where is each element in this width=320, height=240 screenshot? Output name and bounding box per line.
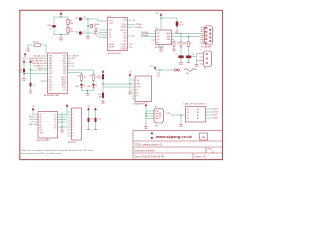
svg-text:TX1RTS: TX1RTS: [120, 47, 126, 49]
svg-text:RST: RST: [41, 81, 44, 83]
wire: [30, 63, 32, 83]
wire: [197, 57, 200, 61]
capacitor C1: [23, 69, 25, 73]
svg-text:COM: COM: [166, 113, 171, 115]
wire: [67, 120, 72, 122]
svg-text:ADC6: ADC6: [62, 76, 66, 79]
wire: [128, 24, 136, 26]
svg-text:CLKOUT: CLKOUT: [120, 30, 126, 32]
wire: [33, 110, 38, 114]
wire: [146, 110, 154, 112]
wire: [27, 45, 29, 49]
wire: [30, 87, 32, 91]
svg-text:Date: 9/1/2010 13:56:34 PM: Date: 9/1/2010 13:56:34 PM: [135, 156, 165, 159]
svg-text:S2: S2: [155, 107, 157, 109]
wire: [58, 121, 68, 123]
svg-text:+5V: +5V: [144, 102, 148, 104]
wire: [159, 45, 163, 48]
wire: [23, 63, 25, 69]
svg-text:IC1: IC1: [156, 28, 159, 30]
svg-text:IC2: IC2: [108, 16, 111, 18]
svg-text:GND: GND: [144, 128, 149, 130]
svg-text:www.skpang.co.uk: www.skpang.co.uk: [155, 134, 193, 139]
wire: [128, 19, 132, 21]
wire: [99, 37, 108, 39]
wire: [188, 58, 190, 62]
wire: [93, 81, 95, 85]
svg-text:Y3: Y3: [54, 120, 56, 122]
wire CANH: [172, 33, 201, 35]
power +5V: [149, 66, 156, 69]
svg-text:R5: R5: [89, 76, 91, 78]
wire: [87, 91, 89, 94]
node junction: [160, 17, 161, 18]
svg-text:+5V: +5V: [132, 20, 136, 22]
wire: [99, 32, 108, 34]
svg-text:C9: C9: [49, 29, 52, 31]
svg-text:TX1: TX1: [129, 47, 132, 49]
svg-text:10uF: 10uF: [47, 25, 52, 27]
capacitor C8 polarized: [186, 55, 192, 58]
wire: [102, 80, 104, 85]
wire: [41, 45, 47, 53]
wire: [188, 37, 190, 42]
resistor R5: [92, 75, 94, 81]
wire: [44, 63, 48, 65]
wire: [128, 35, 132, 37]
svg-text:60: 60: [191, 43, 193, 45]
svg-text:OSC1: OSC1: [109, 21, 113, 23]
svg-text:ATMEGA8-16AU: ATMEGA8-16AU: [44, 94, 60, 97]
svg-text:R7: R7: [177, 43, 179, 45]
svg-text:PB5: PB5: [49, 68, 52, 70]
svg-text:GND: GND: [159, 50, 164, 52]
capacitor C6: [79, 17, 82, 20]
wire: [141, 33, 156, 35]
title block line: [133, 146, 223, 148]
wire: [173, 47, 175, 49]
svg-text:TX: TX: [72, 66, 75, 68]
node junction: [87, 25, 88, 26]
wire: [24, 73, 48, 75]
wire: [58, 119, 68, 121]
svg-text:9: 9: [73, 136, 74, 138]
ground: [59, 37, 62, 39]
resistor R4: [80, 75, 82, 81]
svg-text:SCK: SCK: [72, 58, 76, 60]
wire: [103, 86, 135, 88]
wire: [81, 81, 83, 85]
wire: [53, 29, 55, 35]
wire: [102, 84, 104, 87]
wire: [54, 34, 68, 36]
svg-text:22p: 22p: [75, 32, 78, 34]
svg-text:RST: RST: [123, 38, 126, 40]
svg-text:RXD: RXD: [157, 36, 161, 38]
svg-text:PB2: PB2: [49, 61, 52, 63]
wire: [132, 89, 136, 91]
svg-text:TX0CAN: TX0CAN: [141, 31, 149, 34]
svg-text:XT1: XT1: [63, 87, 66, 89]
svg-text:VCC: VCC: [49, 71, 53, 73]
svg-text:OSC: OSC: [123, 41, 127, 43]
svg-text:SJ1: SJ1: [157, 76, 160, 78]
svg-text:VIN: VIN: [137, 80, 141, 82]
svg-text:+5V: +5V: [24, 57, 28, 59]
wire: [82, 32, 88, 34]
svg-text:R8: R8: [185, 43, 187, 45]
wire: [68, 70, 94, 75]
svg-text:MICROSD: MICROSD: [68, 142, 77, 144]
wire VREF: [172, 40, 175, 42]
connector microSD card detect: [135, 76, 152, 102]
svg-text:SOF: SOF: [123, 33, 126, 35]
wire: [23, 73, 25, 79]
wire: [88, 25, 90, 27]
svg-text:10k: 10k: [70, 31, 73, 33]
svg-text:A2/LT: A2/LT: [214, 114, 218, 117]
svg-text:+5V: +5V: [128, 71, 132, 73]
svg-text:A5: A5: [40, 124, 42, 127]
wire: [191, 54, 199, 57]
connector X2 DB9 body: [205, 26, 213, 46]
svg-text:P3: P3: [137, 96, 139, 98]
svg-text:Y4: Y4: [54, 122, 56, 124]
power +5V: [155, 13, 162, 16]
ground: [60, 129, 63, 131]
wire: [160, 16, 162, 30]
svg-text:GND: GND: [59, 40, 64, 42]
net label stubs into IC1 lower-left: [99, 30, 108, 38]
svg-text:MISO: MISO: [29, 124, 34, 126]
svg-text:3: 3: [73, 118, 74, 120]
svg-text:VCC: VCC: [157, 39, 161, 41]
capacitor C7: [79, 31, 82, 34]
wire: [103, 83, 135, 85]
svg-text:PD4: PD4: [63, 66, 66, 68]
ground: [86, 35, 89, 37]
solder jumper SJ1: [174, 69, 196, 72]
border frame: [20, 10, 223, 159]
wire: [68, 60, 72, 62]
ground: [46, 139, 49, 141]
node junction: [159, 69, 160, 70]
wire: [34, 119, 38, 121]
power +5V: [128, 71, 132, 75]
svg-text:CS: CS: [109, 37, 111, 39]
svg-text:C12: C12: [91, 119, 94, 121]
svg-text:RX0BF: RX0BF: [109, 44, 114, 46]
svg-text:PC5: PC5: [49, 90, 52, 92]
svg-text:Sheet: 1/1: Sheet: 1/1: [195, 156, 207, 159]
wire: [180, 47, 182, 56]
svg-text:GND: GND: [29, 92, 34, 94]
svg-text:GND: GND: [40, 133, 44, 135]
wire: [132, 95, 136, 97]
svg-text:PB4: PB4: [49, 66, 52, 68]
wire common: [170, 115, 186, 124]
node junction: [145, 113, 146, 114]
wire: [141, 36, 156, 38]
svg-text:A2: A2: [40, 116, 42, 119]
wire: [68, 65, 72, 67]
wire: [88, 110, 90, 117]
svg-text:Document Number:: Document Number:: [135, 149, 156, 152]
svg-text:Y2: Y2: [54, 117, 56, 119]
wire TXCAN into 2551: [141, 34, 163, 49]
node junction: [61, 126, 62, 127]
wire: [44, 80, 48, 82]
svg-text:SW: SW: [155, 126, 158, 128]
wire: [44, 65, 48, 67]
svg-text:PD2: PD2: [63, 61, 66, 63]
svg-text:INT: INT: [124, 36, 127, 38]
svg-text:OSC2: OSC2: [109, 23, 113, 25]
node junction: [180, 33, 181, 34]
connector X1 body: [204, 51, 212, 67]
svg-text:PD0: PD0: [63, 56, 66, 58]
svg-text:4: 4: [73, 121, 74, 123]
node junction: [23, 73, 24, 74]
svg-text:A3/RT: A3/RT: [214, 117, 219, 120]
IC1 MCP2551: [156, 30, 172, 45]
node junction: [145, 115, 146, 116]
svg-text:22p: 22p: [75, 18, 78, 20]
wire: [82, 18, 88, 20]
svg-text:Y5: Y5: [54, 125, 56, 127]
wire: [58, 116, 68, 118]
left net-label stubs of IC2: [44, 56, 48, 69]
svg-text:7: 7: [73, 130, 74, 132]
wire: [206, 117, 214, 119]
capacitor C3: [173, 42, 175, 47]
wire: [66, 107, 68, 115]
svg-text:A0/UP: A0/UP: [214, 108, 220, 111]
connector microSD socket: [72, 108, 82, 140]
wire: [132, 98, 136, 100]
IC3 main: [48, 53, 68, 94]
svg-text:RX0CAN: RX0CAN: [141, 34, 149, 37]
svg-text:+5V: +5V: [149, 66, 153, 68]
svg-text:GND: GND: [172, 50, 177, 52]
wire: [160, 47, 162, 49]
power +5V: [31, 106, 35, 110]
wire: [60, 35, 62, 38]
wire: [196, 61, 198, 65]
svg-text:P$1: P$1: [186, 73, 189, 75]
svg-text:GND: GND: [86, 95, 91, 97]
wire: [60, 15, 62, 18]
wire: [68, 73, 82, 75]
wire: [146, 118, 154, 120]
wire: [67, 135, 72, 137]
wire: [34, 121, 38, 123]
wire: [67, 126, 72, 128]
node junction: [60, 16, 61, 17]
wire: [93, 25, 96, 27]
wire: [88, 19, 108, 21]
svg-text:VOUT: VOUT: [137, 87, 141, 89]
wire: [188, 47, 190, 56]
svg-text:MCP2515-I/SO: MCP2515-I/SO: [108, 53, 122, 55]
ground: [175, 30, 178, 32]
wire: [102, 73, 104, 74]
ground: [179, 124, 182, 126]
node junction: [30, 69, 31, 70]
LED2: [92, 84, 97, 87]
ground: [29, 90, 32, 92]
wire: [93, 88, 95, 91]
svg-text:CANL: CANL: [166, 35, 170, 38]
title block divider REV: [205, 147, 207, 153]
node junction: [180, 114, 181, 115]
wire: [67, 111, 72, 113]
wire: [95, 122, 97, 129]
svg-text:R4: R4: [77, 76, 79, 78]
wire: [67, 114, 72, 116]
svg-text:TITLE: canbus_shield-v12: TITLE: canbus_shield-v12: [135, 144, 163, 147]
svg-text:GND: GND: [49, 73, 53, 75]
svg-text:X1: X1: [204, 68, 206, 70]
wire: [82, 90, 94, 92]
power AVCC: [29, 57, 34, 62]
svg-text:221: 221: [84, 77, 87, 79]
svg-text:DM3AT-SF-PEJ: DM3AT-SF-PEJ: [133, 103, 145, 106]
wire: [154, 69, 156, 70]
wire: [34, 116, 38, 118]
wires IC4 -> microSD: [58, 112, 68, 130]
wire: [88, 26, 96, 33]
wire: [54, 16, 68, 18]
wire: [67, 117, 72, 119]
IC2 right-side stubs + labels: [68, 56, 72, 66]
svg-text:PB1: PB1: [49, 58, 52, 60]
svg-text:Y1: Y1: [54, 114, 56, 116]
svg-text:VDD: VDD: [123, 20, 127, 22]
title block line: [133, 140, 223, 142]
wire: [180, 58, 182, 62]
resistor R8 60R: [188, 42, 190, 47]
wire: [102, 98, 104, 101]
svg-text:PC1: PC1: [49, 80, 52, 82]
svg-text:PD7: PD7: [63, 73, 66, 75]
wire: [151, 39, 156, 41]
resistor R6: [176, 21, 179, 26]
wire: [68, 55, 72, 57]
logo CE box: [200, 133, 208, 140]
svg-text:C2: C2: [33, 85, 35, 87]
power +5V: [24, 53, 28, 59]
power +3V3: [94, 108, 97, 111]
svg-text:INT: INT: [132, 36, 136, 38]
svg-text:P2: P2: [137, 93, 139, 95]
svg-text:Please use in conjunction with: Please use in conjunction with Arduino. …: [21, 149, 94, 152]
svg-text:+5V: +5V: [31, 106, 35, 108]
wire: [47, 138, 49, 140]
IC1 right-side stubs: [128, 20, 136, 36]
wire: [67, 129, 72, 131]
svg-text:CANH: CANH: [166, 32, 171, 35]
svg-text:VCC: VCC: [40, 130, 44, 132]
svg-text:4.7k: 4.7k: [180, 25, 183, 27]
power +5V: [144, 102, 148, 106]
capacitor C7 polarized: [178, 55, 184, 58]
svg-text:PC4: PC4: [49, 87, 52, 89]
svg-text:RXCAN: RXCAN: [136, 26, 143, 29]
connector X2 DB9 pin lines: [201, 28, 205, 44]
svg-text:SO: SO: [109, 35, 112, 37]
capacitor C12: [88, 118, 90, 123]
svg-text:6: 6: [73, 127, 74, 129]
svg-text:X2 CAN_M09: X2 CAN_M09: [201, 46, 211, 49]
svg-text:8: 8: [73, 133, 74, 135]
svg-text:2: 2: [73, 115, 74, 117]
svg-text:10k: 10k: [70, 23, 73, 25]
svg-text:PC2: PC2: [49, 82, 52, 84]
wire: [129, 87, 131, 92]
wire: [81, 88, 83, 91]
ground: [26, 48, 29, 50]
svg-text:ce: ce: [202, 136, 205, 139]
wire: [58, 114, 68, 116]
wire: [132, 79, 136, 81]
svg-text:LT: LT: [187, 115, 189, 117]
LED1: [80, 84, 85, 87]
svg-text:A6: A6: [40, 126, 42, 129]
connector X1 screw terminal pin lines: [200, 54, 204, 65]
svg-text:PD3: PD3: [63, 63, 66, 65]
svg-text:LED1: LED1: [75, 86, 79, 88]
ground: [87, 129, 90, 131]
svg-text:PD1: PD1: [63, 58, 66, 60]
svg-text:A1: A1: [197, 111, 199, 114]
ground: [195, 64, 198, 66]
power +3V3: [66, 104, 69, 107]
ground: [22, 78, 25, 80]
svg-text:R1 10k: R1 10k: [33, 42, 39, 44]
ground: [128, 91, 131, 93]
wire: [67, 17, 69, 20]
svg-text:+5V: +5V: [87, 106, 91, 108]
wire: [67, 25, 69, 28]
wire: [206, 108, 214, 110]
svg-text:UP: UP: [187, 109, 189, 111]
svg-text:P1: P1: [137, 90, 139, 92]
resistor R1: [35, 44, 41, 47]
wire: [102, 87, 104, 93]
svg-text:A3: A3: [197, 117, 199, 120]
svg-text:PB0: PB0: [49, 56, 52, 58]
node junction: [60, 34, 61, 35]
svg-text:GND: GND: [22, 80, 27, 82]
svg-text:C: C: [212, 150, 214, 154]
svg-text:VCC: VCC: [22, 58, 26, 60]
svg-text:LED2: LED2: [87, 86, 91, 88]
svg-text:C1: C1: [20, 72, 22, 74]
ground: [159, 48, 162, 50]
node junction: [129, 83, 130, 84]
wire: [44, 55, 48, 57]
svg-text:DN: DN: [187, 112, 190, 114]
svg-text:TXCAN: TXCAN: [136, 23, 143, 26]
power +5V: [87, 106, 91, 110]
svg-text:A4: A4: [40, 121, 42, 124]
power +5V: [59, 11, 63, 15]
wire: [180, 34, 182, 42]
node junction: [87, 90, 88, 91]
wire: [128, 26, 136, 28]
svg-text:A3: A3: [40, 119, 42, 122]
